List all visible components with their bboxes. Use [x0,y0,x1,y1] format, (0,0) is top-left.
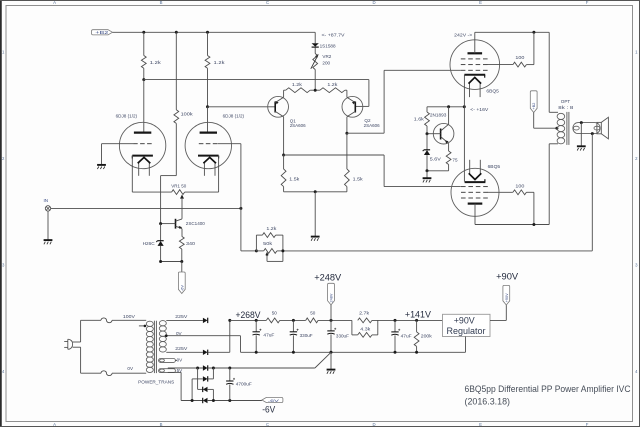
svg-text:47uF: 47uF [263,333,274,338]
tube V2 6BQ5 lower [451,160,500,217]
svg-text:4.3k: 4.3k [360,327,371,332]
svg-text:50: 50 [310,310,316,315]
svg-text:F: F [586,0,589,5]
ground (2N1893) [423,178,432,182]
svg-text:A: A [53,422,56,427]
capacitor 47uF (second) [391,320,411,352]
wire regulator output to +90V tag [490,305,506,320]
resistor 1.5k (Q1 load) [281,155,300,192]
resistor 4.3k (parallel) [352,320,378,337]
resistor 100 (lower screen) [487,184,534,225]
svg-text:0V: 0V [127,366,134,371]
wire +141V node [372,319,443,322]
transistor Q4 2N1893 [427,112,454,144]
svg-text:(2016.3.18): (2016.3.18) [465,396,511,406]
wire tube1 plate lead [143,80,145,133]
svg-text:OPT: OPT [561,99,571,104]
tube U2 6DJ8 (1/2) right triode [185,113,244,175]
svg-text:B: B [160,422,163,427]
svg-text:-6V: -6V [180,285,184,291]
svg-text:6BQ5: 6BQ5 [488,164,501,170]
svg-text:1.2k: 1.2k [327,82,338,87]
net tag +B2 [92,30,113,36]
diode D5 (bias bridge) [198,387,214,392]
wire grid riser tube2 [218,144,241,209]
zener diode 5.6V [423,134,442,171]
ground (OPT secondary) [577,146,586,150]
speaker SP [597,117,609,139]
ground (PSU 0V) [327,370,336,374]
resistor 1.2k (feedback series) [256,226,283,251]
resistor 100k (CCS base bias) [174,32,194,123]
wire B+ rail [230,319,266,321]
wire bias diagonal to 0V [315,352,331,368]
capacitor 330uF (second) [327,320,349,352]
label +268V [236,309,262,320]
svg-text:VR2: VR2 [322,54,331,59]
svg-text:0V: 0V [177,358,184,363]
resistor 1.5k (Q2 load) [345,133,364,192]
svg-text:6DJ8 (1/2): 6DJ8 (1/2) [116,113,138,118]
wire Q2 collector to upper 6BQ5 grid [347,70,461,133]
wire HV CT 0V [165,331,241,352]
svg-text:248V: 248V [330,293,334,302]
wire HV top tap 225V [166,314,203,320]
wire B+ rail down to OPT [549,32,558,112]
node 47uF tap [255,319,258,322]
wire VR1 wiper to 2SC1400 collector [181,198,183,218]
svg-text:100V: 100V [123,314,136,319]
wire tube2 plate lead [207,107,209,132]
svg-text:242V ->: 242V -> [454,33,472,38]
svg-text:1.5k: 1.5k [289,176,300,181]
annotation <- +87.7V [322,33,346,38]
svg-text:VR1 50: VR1 50 [171,184,186,189]
tube V1 6BQ5 upper [450,40,500,97]
wire rail to diode [314,32,316,43]
wire 5V winding bottom tap [168,372,181,400]
svg-text:1.2k: 1.2k [292,82,303,87]
wire Q2 collector [346,117,348,133]
resistor 100 (upper screen) [487,32,534,67]
port IN [44,198,51,211]
regulator U5 +90V [443,314,491,336]
svg-text:0V: 0V [176,331,183,336]
svg-text:225V: 225V [175,346,188,351]
wire 100k to 2SC1400 base [161,123,177,223]
svg-text:75: 75 [452,158,458,163]
net tag +248V [328,283,335,320]
wire bridge left verticals [192,368,198,401]
node OPT secondary bottom tap [591,132,594,135]
wire 2N1893 collector [448,107,450,125]
svg-text:+248V: +248V [314,272,342,283]
tube U1 6DJ8 (1/2) left triode [116,113,166,175]
resistor 50 (first filter) [266,310,280,322]
svg-text:330uF: 330uF [300,333,313,338]
node IN junction [239,207,242,210]
node tube1 plate junction [142,78,145,81]
node 0V rail junctions [255,351,418,354]
svg-text:2SA606: 2SA606 [364,123,380,128]
svg-text:D: D [372,0,375,5]
annotation <- +16V [470,107,489,112]
svg-text:6DJ8 (1/2): 6DJ8 (1/2) [223,113,245,118]
node Q2 collector junction [345,132,348,135]
wire primary tap stub [139,325,146,328]
svg-text:E: E [479,0,482,5]
svg-text:100: 100 [515,55,525,60]
resistor 1.6k [414,107,430,134]
plug AC inlet [64,320,80,373]
wire emitter to -6V tag [159,260,183,272]
wire Q1 collector to lower 6BQ5 grid [284,155,461,187]
svg-text:IN: IN [44,198,49,203]
wire +248V node [318,319,352,322]
svg-text:F: F [586,422,589,427]
variable resistor VR2 200 [311,54,332,70]
svg-text:POWER_TRANS: POWER_TRANS [138,379,174,384]
wire D2 cathode to B+ join [208,320,230,352]
wire diode to VR2 [314,47,316,53]
wire secondary tap to ground [580,123,582,146]
wire [280,319,306,321]
wire tube1 grid to ground [102,144,134,165]
resistor 1.2k (Q1 emitter) [284,82,316,97]
svg-text:200: 200 [322,61,330,66]
diode D3 (bias bridge) [203,365,208,370]
node OPT secondary top tap [580,121,583,124]
label +248V [314,272,342,283]
node B+ rectifier junction [228,319,231,322]
svg-text:225V: 225V [175,314,188,319]
wire cross-couple tube1 plate to Q2 base [144,80,369,107]
svg-text:2SA606: 2SA606 [290,123,306,128]
resistor 340 (emitter) [179,229,195,262]
wire IN node down to feedback network [241,208,257,251]
svg-text:B: B [160,0,163,5]
svg-text:+90V: +90V [496,270,519,281]
wire cathode link to lower tube [463,107,465,182]
wire 5V winding top tap [168,368,203,373]
net tag -6V (PSU) [262,397,283,403]
net tag -6V (CCS supply) [178,272,185,294]
wire upper plate to B+ rail [475,31,549,54]
node tube2 plate junction [206,105,209,108]
capacitor 47uF [253,320,275,352]
svg-text:C: C [266,422,269,427]
svg-text:1S1588: 1S1588 [320,43,336,48]
wire to ground [426,171,428,178]
svg-text:6BQ5pp Differential PP Power A: 6BQ5pp Differential PP Power Amplifier I… [465,384,631,394]
wire 0V rail to ground [330,352,332,369]
net tag +90V [503,285,510,305]
node feedback right [281,249,284,252]
resistor 75 (emitter) [427,143,458,171]
zener diode H26C (base reference) [143,224,164,262]
node emitter common (+87.7V) [314,89,317,92]
svg-text:100: 100 [515,184,525,189]
title text [465,384,631,407]
svg-text:+90V: +90V [454,316,475,326]
wire load common [284,190,347,236]
wire cathode CCS rail (+16V node) [427,105,466,108]
label +141V [405,309,432,320]
svg-text:+B2: +B2 [532,103,536,110]
diode D2 (HV-) [203,350,208,355]
transformer OPT 8k:8 [557,99,600,145]
node Q1 collector junction [282,154,285,157]
node CCS emitter junction [426,169,429,172]
resistor 2.7k [358,311,372,323]
svg-text:A: A [53,0,56,5]
wire feedback from OPT secondary [283,134,592,251]
svg-text:-6V: -6V [268,399,280,403]
svg-text:+268V: +268V [236,309,262,320]
resistor 200k (bleeder) [414,320,432,352]
svg-text:4700uF: 4700uF [236,382,252,387]
wire bridge right verticals [212,368,214,401]
svg-text:5.6V: 5.6V [430,156,442,161]
node OPT center tap [555,127,558,130]
wire Q1 collector [283,117,285,155]
resistor 1.2k (Q2 emitter) [315,82,347,97]
resistor 1.2k (right plate load) [205,32,225,107]
transistor Q2 2SA606 [342,96,380,127]
fuse (hot) [81,314,147,323]
svg-text:H26C: H26C [143,241,156,246]
svg-text:+141V: +141V [405,309,432,320]
wire IN port sleeve to ground [47,211,49,239]
svg-text:Regulator: Regulator [447,326,486,336]
svg-text:340: 340 [186,241,196,246]
svg-text:1.2k: 1.2k [266,226,277,231]
resistor 50 (second filter) [306,310,318,322]
svg-text:8k : 8: 8k : 8 [558,105,574,110]
label -6V [262,403,276,414]
svg-text:<- +87.7V: <- +87.7V [322,33,346,38]
svg-text:2.7k: 2.7k [359,311,370,316]
capacitor 330uF (first) [290,320,313,352]
wire +B2 rail [113,31,316,33]
svg-text:1.2k: 1.2k [214,60,226,65]
svg-text:C: C [266,0,269,5]
svg-text:+B2: +B2 [95,30,109,35]
wire Q1 base from tube2 plate [208,106,276,108]
variable resistor VR1 50 (cathode balance) [171,184,186,199]
svg-text:-6V: -6V [262,403,276,414]
wire VR2 to emitter node [314,70,316,91]
svg-text:50: 50 [272,310,278,315]
svg-text:E: E [479,422,482,427]
svg-text:330uF: 330uF [336,334,349,339]
annotation 242V -> [454,33,472,38]
svg-text:47uF: 47uF [401,334,412,339]
fuse (neutral) [81,366,147,376]
wire heater winding 0V stub [175,358,183,363]
svg-text:50k: 50k [263,241,273,246]
diode D1 (HV+) [203,318,208,323]
resistor 1.2k (left plate load) [141,32,161,79]
label +90V [496,270,519,281]
diode D4 (bias bridge) [192,376,213,381]
capacitor 4700uF [226,368,252,401]
wire tube1 cathode to VR1 [132,156,171,193]
svg-text:2SC1400: 2SC1400 [186,221,205,226]
wire upper cathode to +16V node [463,75,465,107]
transformer T1 POWER_TRANS [138,321,175,385]
wire HV bottom tap 225V [166,346,203,352]
svg-text:200k: 200k [421,334,433,339]
wire bias + row [196,367,315,370]
ground (tube1 grid) [97,165,106,169]
node 2N1893 base junction [426,132,429,135]
wire tube2 cathode to VR1 [185,156,219,193]
svg-text:100k: 100k [181,112,194,117]
ground (cascode loads) [311,237,320,241]
node 2SC1400 base junction [159,222,162,225]
svg-text:D: D [372,422,375,427]
svg-text:<- +16V: <- +16V [470,107,489,112]
svg-text:6BQ5: 6BQ5 [486,89,499,95]
diode 1S1588 [312,43,336,48]
svg-text:1.5k: 1.5k [353,176,364,181]
net tag +B2 (OPT center tap) [530,91,557,128]
node 330uF tap [292,319,295,322]
svg-text:+90V: +90V [505,293,509,302]
svg-text:2N1893: 2N1893 [430,112,447,117]
variable resistor 50k (feedback) [256,241,283,261]
svg-text:1.6k: 1.6k [414,116,425,121]
wire lower plate to OPT bottom [475,144,558,226]
diode D6 (bias bridge) [181,398,262,403]
ground (input) [44,240,53,244]
transistor Q1 2SA606 [268,96,306,128]
svg-text:1.2k: 1.2k [150,60,162,65]
node rail junctions [142,31,209,34]
wire regulator return [241,337,466,353]
transistor Q3 2SC1400 [161,219,206,229]
node feedback left [255,249,258,252]
wire IN to grid node [51,207,241,209]
